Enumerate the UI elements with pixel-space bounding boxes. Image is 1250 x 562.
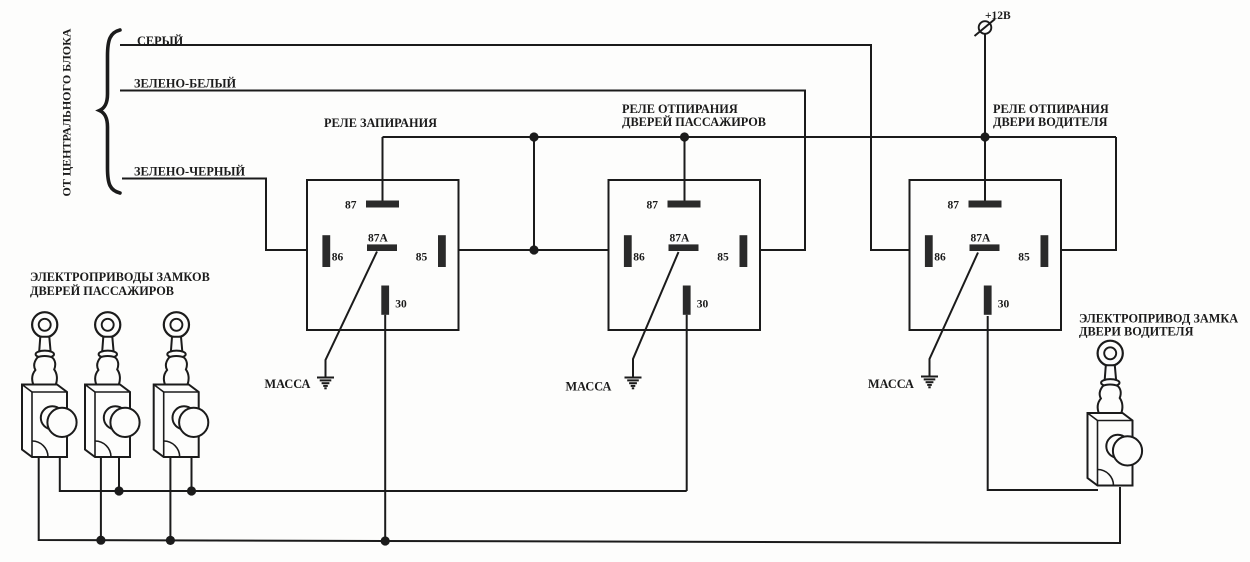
actuator A2 (passenger lock) (85, 312, 140, 457)
wire relay K1 pin 30 drop to bottom bus (384, 315, 386, 542)
wire relay K2 pin 87 riser (684, 137, 686, 202)
svg-text:85: 85 (416, 252, 428, 264)
svg-text:ДВЕРИ ВОДИТЕЛЯ: ДВЕРИ ВОДИТЕЛЯ (993, 115, 1108, 129)
wire ЗЕЛЕНО-БЕЛЫЙ (to relay K2 pin 85) (120, 91, 805, 251)
svg-text:30: 30 (395, 299, 407, 311)
+12V supply symbol (975, 19, 996, 36)
label ЭЛЕКТРОПРИВОД ЗАМКА ДВЕРИ ВОДИТЕЛЯ (1079, 312, 1238, 339)
wire relay K2 87A to ground (633, 252, 679, 377)
svg-text:ЭЛЕКТРОПРИВОД ЗАМКА: ЭЛЕКТРОПРИВОД ЗАМКА (1079, 312, 1238, 326)
wire actuator A2 right drop (118, 456, 120, 491)
svg-text:87: 87 (345, 200, 357, 212)
relay K3 (РЕЛЕ ОТПИРАНИЯ ДВЕРИ ВОДИТЕЛЯ) (910, 180, 1062, 330)
svg-text:85: 85 (717, 252, 729, 264)
junction A3/mid bus (187, 486, 196, 495)
wire relay K3 pin 30 to driver actuator (988, 316, 1098, 490)
svg-text:87: 87 (647, 200, 659, 212)
junction at bus/tap (534,137) (529, 132, 538, 141)
wire ЗЕЛЕНО-ЧЕРНЫЙ (to relay K1 pin 86) (122, 179, 307, 251)
svg-text:ЗЕЛЕНО-БЕЛЫЙ: ЗЕЛЕНО-БЕЛЫЙ (134, 77, 237, 91)
svg-text:87А: 87А (670, 233, 691, 245)
svg-text:ОТ ЦЕНТРАЛЬНОГО БЛОКА: ОТ ЦЕНТРАЛЬНОГО БЛОКА (60, 28, 74, 196)
wire relay K3 pin 87 riser (984, 137, 986, 202)
junction A2/bottom bus (96, 536, 105, 545)
actuator A4 (driver door lock) (1088, 341, 1143, 486)
svg-text:ДВЕРЕЙ ПАССАЖИРОВ: ДВЕРЕЙ ПАССАЖИРОВ (622, 115, 766, 129)
label ЭЛЕКТРОПРИВОДЫ ЗАМКОВ ДВЕРЕЙ ПАССАЖИРОВ (30, 270, 210, 298)
junction at tap/interconnect (534,251) (529, 245, 538, 254)
svg-text:85: 85 (1018, 252, 1030, 264)
ground symbol (relay K3) (921, 377, 938, 388)
wire СЕРЫЙ (to relay K3 pin 86) (120, 45, 909, 250)
wire actuator A2 left drop (100, 456, 102, 541)
brace (from central block) (100, 30, 121, 193)
label РЕЛЕ ОТПИРАНИЯ ДВЕРЕЙ ПАССАЖИРОВ (622, 102, 766, 129)
junction K1 pin30/bottom bus (381, 536, 390, 545)
svg-text:ЭЛЕКТРОПРИВОДЫ ЗАМКОВ: ЭЛЕКТРОПРИВОДЫ ЗАМКОВ (30, 270, 210, 284)
label РЕЛЕ ОТПИРАНИЯ ДВЕРИ ВОДИТЕЛЯ (993, 102, 1109, 129)
svg-text:МАССА: МАССА (566, 380, 612, 394)
svg-text:ЗЕЛЕНО-ЧЕРНЫЙ: ЗЕЛЕНО-ЧЕРНЫЙ (134, 165, 245, 179)
relay K2 (РЕЛЕ ОТПИРАНИЯ ДВЕРЕЙ ПАССАЖИРОВ) (609, 180, 761, 330)
svg-text:РЕЛЕ ОТПИРАНИЯ: РЕЛЕ ОТПИРАНИЯ (993, 102, 1109, 116)
relay K1 (РЕЛЕ ЗАПИРАНИЯ) (307, 180, 459, 330)
wire relay K1 87A to ground (326, 252, 378, 378)
svg-text:РЕЛЕ ОТПИРАНИЯ: РЕЛЕ ОТПИРАНИЯ (622, 102, 738, 116)
svg-text:87А: 87А (971, 233, 992, 245)
wire mid bus (actuator right leads to relay K2 pin 30) (60, 456, 687, 491)
wire bus tap down at x=534 (533, 137, 535, 250)
junction A2/mid bus (114, 486, 123, 495)
svg-text:МАССА: МАССА (265, 377, 311, 391)
wire +12V drop to bus (984, 34, 986, 137)
actuator A1 (passenger lock) (22, 312, 77, 457)
svg-text:86: 86 (934, 251, 946, 263)
svg-text:30: 30 (697, 299, 709, 311)
wire relay K2 pin 30 drop to mid bus (686, 315, 688, 491)
wire actuator A3 left drop (169, 456, 171, 541)
junction at bus/K2 riser (684.5,137) (680, 132, 689, 141)
wire relay K1 pin 87 riser (382, 137, 384, 202)
svg-text:ДВЕРЕЙ ПАССАЖИРОВ: ДВЕРЕЙ ПАССАЖИРОВ (30, 284, 174, 298)
svg-text:30: 30 (998, 299, 1010, 311)
svg-text:ДВЕРИ ВОДИТЕЛЯ: ДВЕРИ ВОДИТЕЛЯ (1079, 325, 1194, 339)
junction A3/bottom bus (166, 536, 175, 545)
svg-text:МАССА: МАССА (868, 377, 914, 391)
svg-text:87А: 87А (368, 233, 389, 245)
wire relay K1 pin 85 to relay K2 pin 86 (458, 249, 609, 251)
svg-text:87: 87 (948, 200, 960, 212)
actuator A3 (passenger lock) (154, 312, 209, 457)
wire actuator A3 right drop (191, 456, 193, 491)
svg-text:86: 86 (633, 251, 645, 263)
ground symbol (relay K1) (317, 378, 334, 389)
wire relay K3 87A to ground (930, 253, 979, 377)
wire 12V horizontal bus (383, 136, 1117, 138)
ground symbol (relay K2) (625, 378, 642, 389)
svg-text:86: 86 (332, 251, 344, 263)
junction at bus/+12V/K3 riser (985,137) (980, 132, 989, 141)
svg-text:РЕЛЕ ЗАПИРАНИЯ: РЕЛЕ ЗАПИРАНИЯ (324, 116, 437, 130)
svg-text:+12В: +12В (985, 10, 1011, 22)
wire bottom bus (actuator left leads, relay K1 pin 30, driver actuator) (39, 456, 1120, 543)
wire bus right drop to relay K3 pin 85 (1061, 137, 1116, 250)
